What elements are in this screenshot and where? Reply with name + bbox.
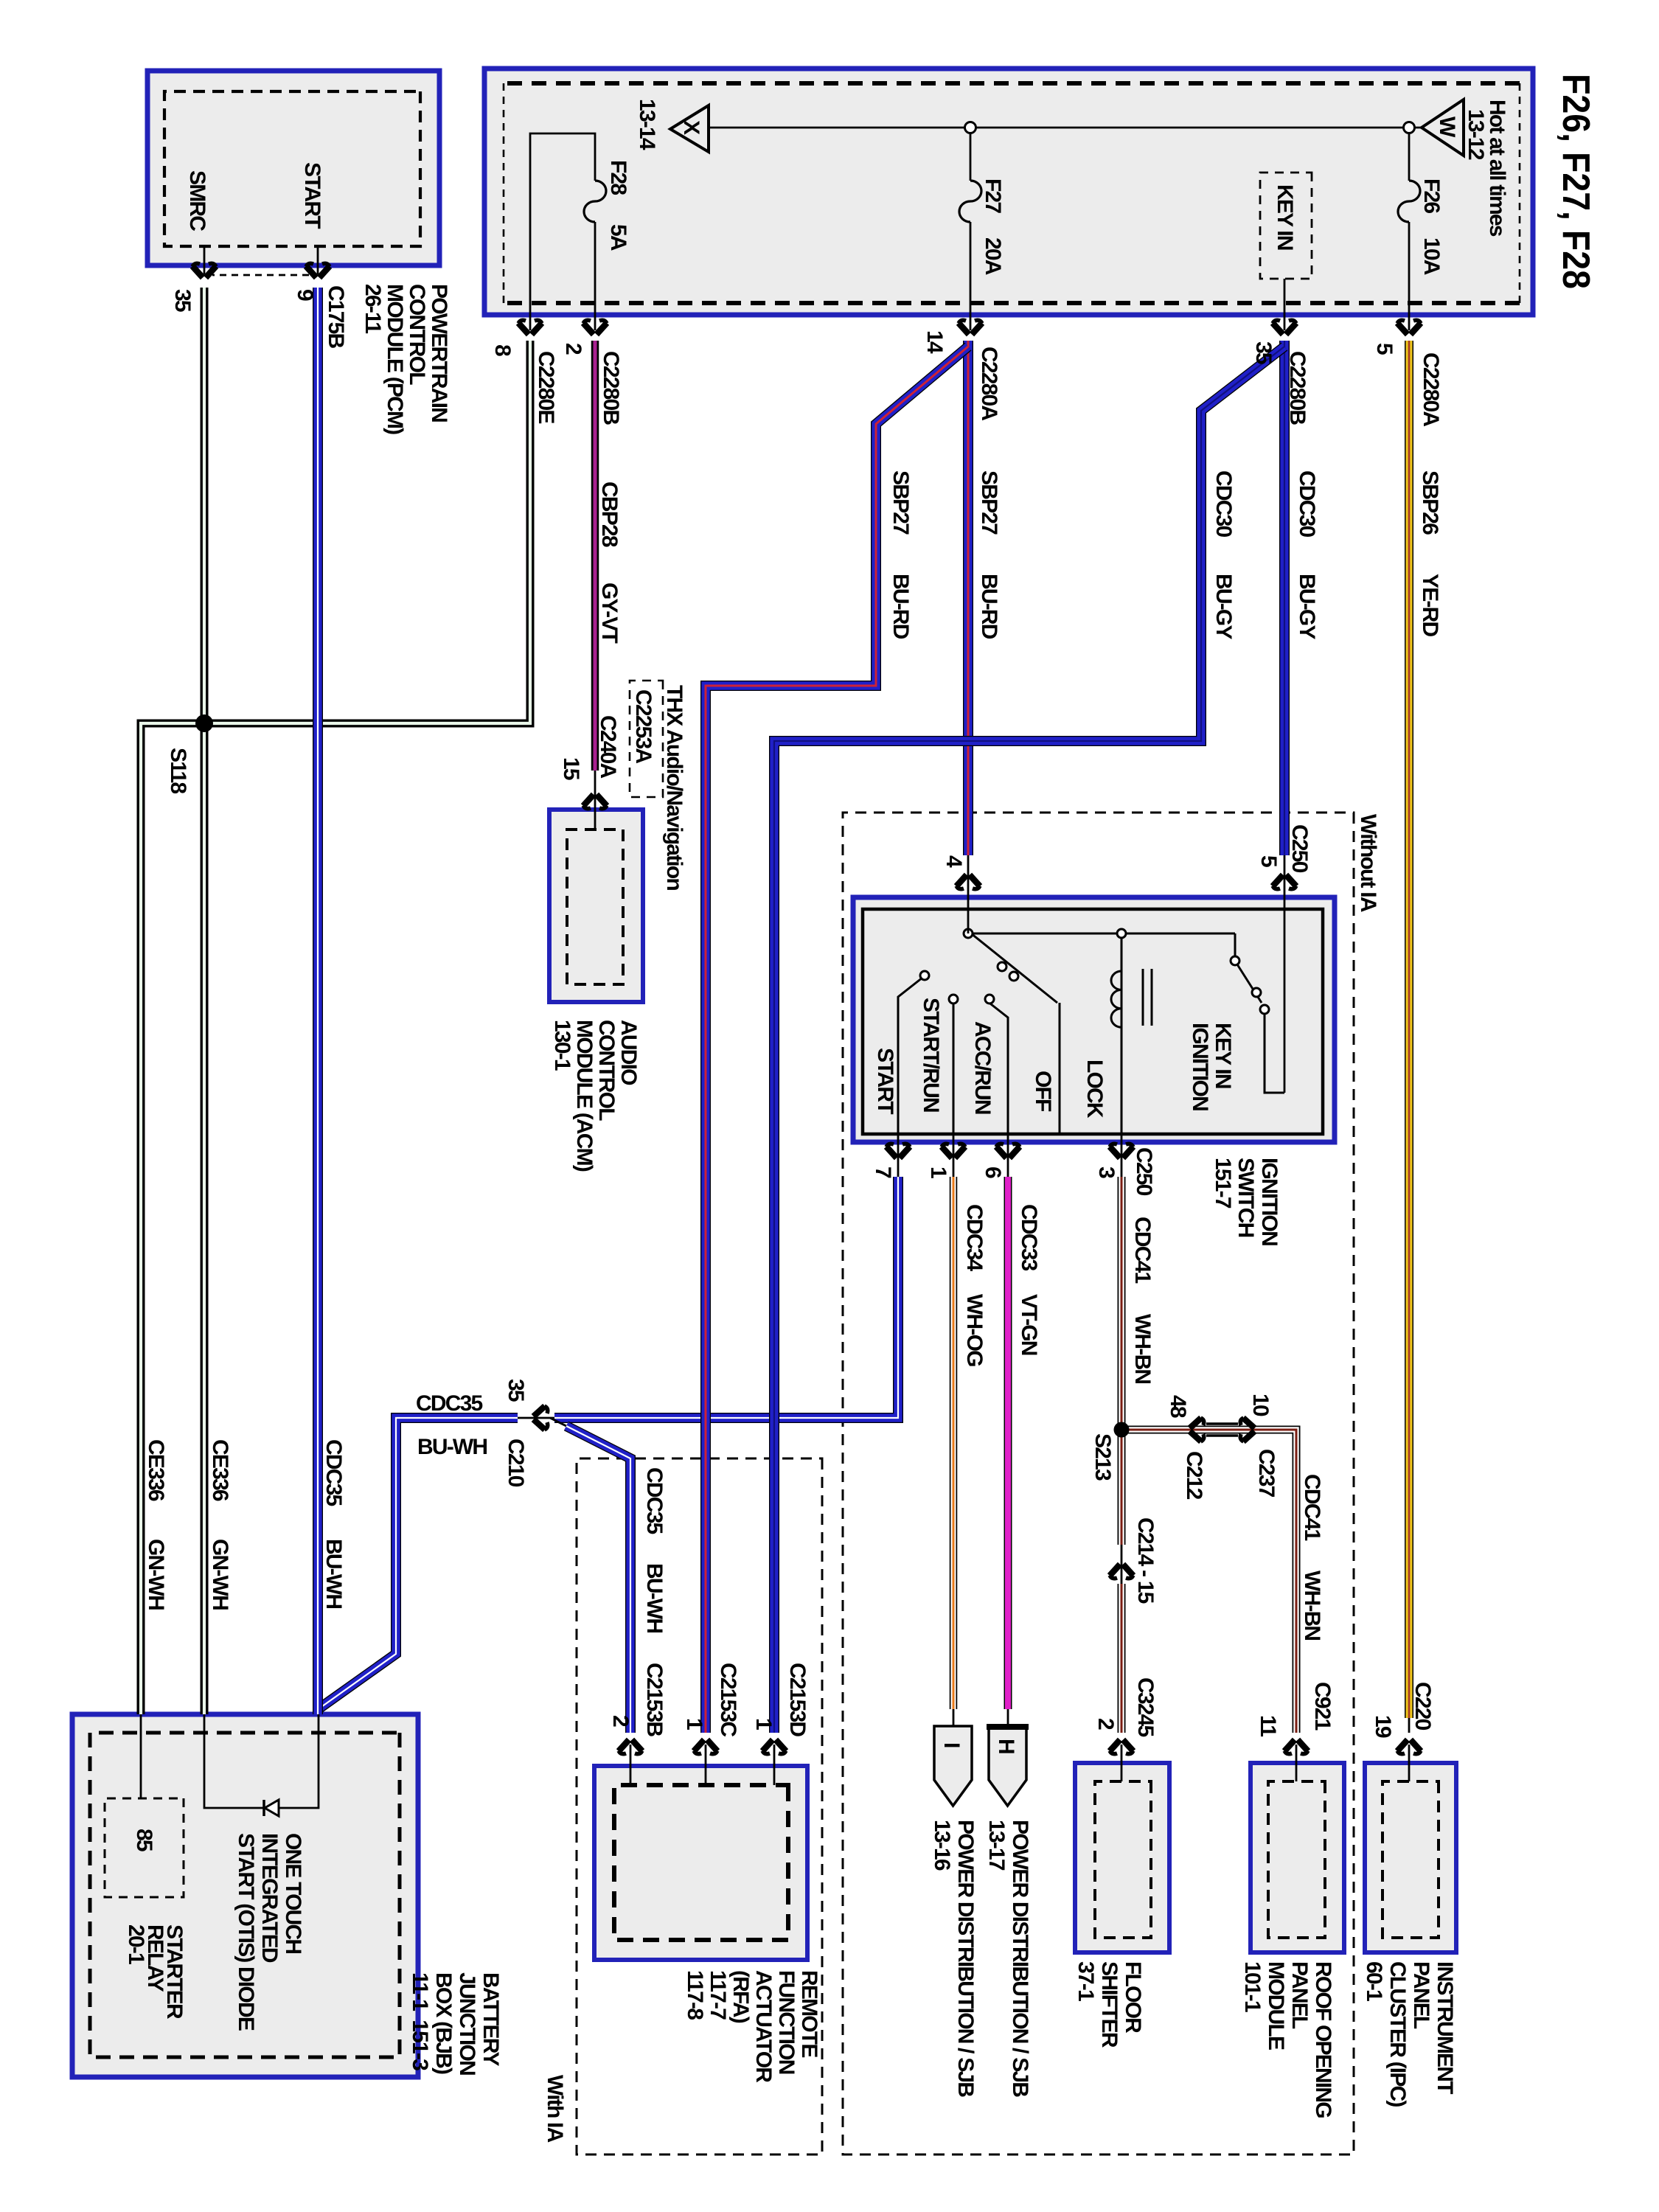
wire PCM START stub	[317, 246, 319, 274]
svg-text:WH-BN: WH-BN	[1130, 1314, 1155, 1383]
node KEY IN	[1260, 173, 1312, 279]
svg-text:ONE TOUCH: ONE TOUCH	[281, 1833, 305, 1953]
wire CDC35 BU-WH ignition pin 7 through C210 to BJB	[554, 1177, 898, 1418]
node C2253A label box (THX Audio/Navigation)	[630, 681, 663, 797]
svg-text:5A: 5A	[606, 224, 630, 251]
svg-text:C220: C220	[1411, 1682, 1435, 1731]
switch SW1 IGNITION SWITCH 151-7	[853, 897, 1335, 1142]
svg-text:THX Audio/Navigation: THX Audio/Navigation	[662, 685, 686, 890]
inductor chime coil	[1111, 971, 1121, 1027]
svg-text:REMOTE: REMOTE	[797, 1970, 821, 2057]
wire CE336 GN-WH S118 to OTIS diode	[204, 723, 205, 1714]
svg-text:4: 4	[942, 855, 966, 868]
svg-text:BATTERY: BATTERY	[479, 1972, 503, 2067]
svg-text:ACTUATOR: ACTUATOR	[751, 1970, 776, 2083]
svg-text:85: 85	[132, 1829, 156, 1851]
svg-text:8: 8	[490, 344, 515, 356]
svg-text:C2153B: C2153B	[642, 1663, 667, 1736]
svg-text:CONTROL: CONTROL	[405, 284, 429, 385]
wire F27 feed	[970, 128, 972, 181]
svg-text:X: X	[679, 120, 703, 135]
wire key-in branch	[1234, 933, 1237, 956]
svg-text:CDC30: CDC30	[1211, 470, 1236, 537]
svg-text:C2253A: C2253A	[631, 689, 655, 763]
svg-text:37-1: 37-1	[1074, 1961, 1098, 2001]
svg-text:KEY IN: KEY IN	[1273, 184, 1297, 250]
svg-text:20A: 20A	[981, 237, 1005, 275]
svg-text:130-1: 130-1	[550, 1020, 574, 1071]
svg-text:INSTRUMENT: INSTRUMENT	[1433, 1961, 1457, 2094]
svg-text:101-1: 101-1	[1240, 1961, 1265, 2012]
connector arrow C2153C pin 1	[694, 1740, 717, 1754]
connector arrow C2153B pin 2	[619, 1740, 642, 1754]
bus wire inside power box	[709, 127, 1422, 129]
wire CE336 GN-WH from C2280E pin 8 to S118 to BJB pin 85	[141, 341, 530, 1714]
node bus tap F27	[965, 122, 976, 133]
svg-text:19: 19	[1371, 1715, 1395, 1738]
wire PCM SMRC stub	[204, 246, 206, 274]
connector arrow C240A pin 15	[583, 795, 607, 809]
svg-text:CDC35: CDC35	[416, 1391, 482, 1416]
svg-text:151-7: 151-7	[1211, 1158, 1235, 1208]
wire SBP27 BU-RD branch to RFA C2153C	[706, 347, 968, 1733]
svg-text:YE-RD: YE-RD	[1418, 574, 1442, 636]
svg-text:PANEL: PANEL	[1287, 1961, 1312, 2029]
fuse F28 5A	[584, 181, 606, 222]
svg-text:BU-GY: BU-GY	[1295, 574, 1319, 639]
connector arrow C921 pin 11	[1284, 1740, 1308, 1754]
connector arrow C214-15	[1110, 1565, 1133, 1579]
svg-text:SWITCH: SWITCH	[1234, 1158, 1258, 1237]
svg-text:SBP27: SBP27	[977, 470, 1001, 535]
svg-text:W: W	[1435, 116, 1459, 138]
junction S118	[195, 714, 213, 732]
svg-text:11: 11	[1256, 1715, 1280, 1736]
svg-text:C921: C921	[1310, 1682, 1335, 1731]
connector arrow C250 pin 5	[1273, 875, 1296, 889]
svg-text:BU-WH: BU-WH	[642, 1563, 667, 1632]
svg-text:26-11: 26-11	[361, 284, 385, 333]
svg-text:POWER DISTRIBUTION / SJB: POWER DISTRIBUTION / SJB	[953, 1820, 978, 2097]
wire CBP28 GY-VT from C2280B pin 2 to ACM C240A pin 15	[594, 341, 596, 771]
svg-text:1: 1	[751, 1718, 776, 1730]
wire pin stubs to C250 bottom	[1121, 1134, 1123, 1178]
svg-text:BU-WH: BU-WH	[321, 1539, 346, 1608]
svg-text:C2280A: C2280A	[1419, 352, 1443, 426]
module ROOF OPENING PANEL MODULE 101-1	[1251, 1763, 1344, 1952]
svg-text:With IA: With IA	[543, 2075, 567, 2143]
svg-text:CONTROL: CONTROL	[594, 1020, 619, 1121]
fuse F26 10A	[1398, 181, 1420, 222]
svg-text:SMRC: SMRC	[185, 170, 209, 231]
svg-text:1: 1	[682, 1718, 706, 1730]
svg-text:IGNITION: IGNITION	[1257, 1158, 1281, 1245]
svg-text:3: 3	[1094, 1166, 1119, 1178]
svg-text:F26, F27, F28: F26, F27, F28	[1554, 74, 1597, 289]
svg-text:C2280B: C2280B	[1285, 351, 1310, 425]
svg-text:CBP28: CBP28	[597, 481, 622, 547]
connector arrow PCM C175B pin 9	[306, 263, 330, 277]
svg-text:I: I	[939, 1742, 964, 1747]
svg-text:BU-WH: BU-WH	[417, 1435, 487, 1459]
svg-text:C2153D: C2153D	[785, 1663, 810, 1736]
connector arrow C250 pin 6	[996, 1144, 1020, 1158]
svg-text:13-14: 13-14	[635, 99, 659, 150]
svg-text:C2280B: C2280B	[599, 351, 623, 425]
svg-text:POWERTRAIN: POWERTRAIN	[427, 284, 451, 422]
svg-text:BU-GY: BU-GY	[1211, 574, 1236, 639]
wire CDC33 VT-GN ignition pin 6 to POWER DISTRIBUTION H	[1007, 1177, 1009, 1709]
module POWERTRAIN CONTROL MODULE (PCM) 26-11	[147, 71, 439, 265]
svg-text:CDC33: CDC33	[1017, 1204, 1041, 1270]
off-page connector X	[670, 105, 709, 152]
svg-text:MODULE (PCM): MODULE (PCM)	[383, 284, 407, 434]
svg-text:35: 35	[504, 1379, 528, 1402]
svg-text:F27: F27	[981, 178, 1005, 213]
svg-text:JUNCTION: JUNCTION	[455, 1972, 479, 2075]
svg-text:CDC35: CDC35	[321, 1439, 346, 1506]
connector arrow C250 pin 7	[886, 1144, 910, 1158]
wire key-in to pin5	[1265, 1014, 1284, 1093]
svg-text:48: 48	[1166, 1395, 1190, 1418]
connector arrow C220 pin 19	[1397, 1740, 1421, 1754]
svg-text:7: 7	[871, 1166, 895, 1178]
relay STARTER RELAY 20-1 (coil 85)	[105, 1798, 184, 1897]
module AUDIO CONTROL MODULE (ACM) 130-1	[549, 810, 643, 1002]
svg-text:10: 10	[1248, 1394, 1273, 1416]
svg-text:11-1 151-3: 11-1 151-3	[408, 1972, 432, 2070]
svg-text:CLUSTER (IPC): CLUSTER (IPC)	[1385, 1961, 1410, 2107]
switch blade OFF	[971, 933, 1060, 1134]
svg-text:5: 5	[1256, 855, 1281, 867]
svg-text:13-16: 13-16	[930, 1820, 954, 1871]
wire CDC35 BU-WH branch C210 to RFA C2153B	[550, 1418, 569, 1427]
svg-text:POWER DISTRIBUTION / SJB: POWER DISTRIBUTION / SJB	[1008, 1820, 1032, 2097]
connector arrow C2280A pin 14	[959, 320, 982, 334]
svg-text:CDC30: CDC30	[1295, 470, 1319, 537]
connector arrow C250 pin 3	[1110, 1144, 1133, 1158]
svg-text:2: 2	[1093, 1718, 1118, 1730]
svg-text:BU-RD: BU-RD	[977, 574, 1001, 639]
svg-text:START/RUN: START/RUN	[919, 998, 943, 1112]
svg-text:C237: C237	[1254, 1449, 1279, 1498]
svg-text:FLOOR: FLOOR	[1121, 1961, 1145, 2034]
svg-text:15: 15	[559, 757, 583, 780]
svg-text:C214 - 15: C214 - 15	[1133, 1517, 1158, 1604]
svg-text:WH-OG: WH-OG	[962, 1294, 987, 1366]
connector arrow C212 pin 48	[1190, 1418, 1204, 1441]
module REMOTE FUNCTION ACTUATOR (RFA)	[594, 1766, 807, 1960]
off-page connector W	[1422, 100, 1464, 156]
svg-text:1: 1	[926, 1166, 950, 1178]
svg-text:IGNITION: IGNITION	[1188, 1023, 1212, 1110]
connector arrow C2153D pin 1	[762, 1740, 786, 1754]
svg-text:35: 35	[170, 289, 195, 312]
wire CDC41 WH-BN ignition pin 3 through S213, C214-15 to FLOOR SHIFTER C3245	[1121, 1177, 1122, 1545]
svg-text:10A: 10A	[1419, 237, 1444, 275]
svg-text:ROOF OPENING: ROOF OPENING	[1311, 1961, 1335, 2118]
svg-text:AUDIO: AUDIO	[616, 1020, 641, 1085]
junction S213	[1114, 1422, 1130, 1438]
svg-text:GY-VT: GY-VT	[597, 582, 622, 643]
wire LOCK line	[1121, 933, 1123, 1134]
wire F26 feed	[1408, 128, 1411, 181]
svg-text:VT-GN: VT-GN	[1017, 1294, 1041, 1355]
svg-text:117-7: 117-7	[706, 1970, 730, 2020]
svg-text:CDC41: CDC41	[1130, 1217, 1155, 1283]
svg-text:Without IA: Without IA	[1356, 814, 1380, 912]
svg-text:C2280E: C2280E	[534, 351, 558, 423]
off-page flag I POWER DISTRIBUTION/SJB 13-16	[934, 1726, 972, 1806]
switch contact START	[898, 978, 922, 1134]
svg-text:C212: C212	[1182, 1451, 1206, 1500]
svg-text:SBP27: SBP27	[888, 470, 913, 535]
connector arrow C237 pin 10	[1240, 1418, 1254, 1441]
connector arrow C250 pin 1	[942, 1144, 965, 1158]
switch contact ACC/RUN	[987, 1001, 1008, 1134]
svg-text:C3245: C3245	[1133, 1677, 1158, 1737]
svg-text:INTEGRATED: INTEGRATED	[257, 1833, 282, 1963]
svg-text:PANEL: PANEL	[1409, 1961, 1433, 2029]
connector arrow C2280A pin 5	[1397, 320, 1421, 334]
svg-text:F26: F26	[1419, 178, 1444, 213]
svg-text:14: 14	[922, 330, 947, 354]
svg-text:60-1: 60-1	[1362, 1961, 1386, 2001]
svg-text:F28: F28	[606, 160, 630, 195]
switch KEY IN IGNITION contacts	[1237, 964, 1262, 1003]
wire SBP26 YE-RD from fuse F26 to IPC C220 pin 19	[1408, 341, 1410, 1718]
off-page flag H POWER DISTRIBUTION/SJB 13-17	[989, 1726, 1026, 1806]
wire F28 feed loop	[530, 133, 595, 330]
svg-text:13-17: 13-17	[984, 1820, 1009, 1871]
node Without IA (dashed region)	[843, 813, 1354, 2154]
svg-text:CE336: CE336	[208, 1439, 232, 1501]
svg-text:C240A: C240A	[596, 715, 620, 779]
svg-text:MODULE (ACM): MODULE (ACM)	[572, 1020, 597, 1172]
node With IA (dashed region)	[577, 1458, 822, 2154]
connector C175B link	[212, 274, 309, 276]
module BATTERY JUNCTION BOX (BJB)	[72, 1714, 418, 2077]
svg-text:C175B: C175B	[324, 285, 348, 349]
svg-text:CE336: CE336	[144, 1439, 168, 1501]
svg-text:ACC/RUN: ACC/RUN	[970, 1021, 995, 1114]
wire CDC34 WH-OG ignition pin 1 to POWER DISTRIBUTION I	[953, 1177, 954, 1709]
wire SBP27 BU-RD C2280A pin 14 to ignition pin 4	[967, 341, 969, 855]
svg-text:LOCK: LOCK	[1082, 1060, 1107, 1119]
wire BJB internal diode branch	[204, 1714, 319, 1808]
switch contact START/RUN	[953, 999, 955, 1134]
svg-text:C250: C250	[1132, 1147, 1156, 1196]
svg-text:CDC41: CDC41	[1300, 1474, 1324, 1540]
connector arrow C2280B pin 35	[1273, 320, 1296, 334]
svg-text:GN-WH: GN-WH	[144, 1539, 168, 1610]
svg-text:BU-RD: BU-RD	[888, 574, 913, 639]
svg-text:C210: C210	[504, 1439, 528, 1487]
svg-text:117-8: 117-8	[683, 1970, 707, 2020]
svg-text:C250: C250	[1287, 824, 1312, 873]
svg-text:FUNCTION: FUNCTION	[774, 1970, 799, 2074]
diode OTIS (in BJB)	[265, 1800, 279, 1816]
svg-text:SBP26: SBP26	[1418, 470, 1442, 535]
svg-text:KEY IN: KEY IN	[1211, 1023, 1235, 1088]
wire KEY IN feed	[1284, 279, 1286, 330]
wire CDC30 BU-GY C2280B pin 35 to ignition pin 5	[1284, 341, 1285, 855]
svg-text:5: 5	[1372, 343, 1397, 355]
connector arrow C2280E pin 8	[518, 320, 542, 334]
wire CDC41 WH-BN S213 branch through C212/C237 to ROOF C921	[1121, 1430, 1296, 1733]
svg-text:MODULE: MODULE	[1264, 1961, 1288, 2050]
svg-text:SHIFTER: SHIFTER	[1097, 1961, 1121, 2048]
svg-text:GN-WH: GN-WH	[208, 1539, 232, 1610]
svg-text:C2153C: C2153C	[716, 1663, 740, 1736]
connector arrow C250 pin 4	[956, 875, 980, 889]
svg-text:START: START	[873, 1048, 897, 1114]
svg-text:OFF: OFF	[1031, 1071, 1055, 1112]
connector arrow C3245 pin 2	[1110, 1740, 1133, 1754]
svg-text:BOX (BJB): BOX (BJB)	[431, 1972, 456, 2074]
svg-text:(RFA): (RFA)	[728, 1970, 753, 2023]
module FLOOR SHIFTER 37-1	[1075, 1763, 1169, 1952]
svg-text:START: START	[300, 162, 324, 229]
svg-text:20-1: 20-1	[124, 1924, 148, 1964]
node bus tap F26	[1404, 122, 1415, 133]
connector arrow PCM C175B pin 35	[192, 263, 216, 277]
svg-text:CDC34: CDC34	[962, 1204, 987, 1271]
svg-text:START (OTIS) DIODE: START (OTIS) DIODE	[234, 1833, 258, 2031]
module INSTRUMENT PANEL CLUSTER (IPC) 60-1	[1365, 1763, 1456, 1952]
svg-text:S213: S213	[1091, 1433, 1115, 1481]
connector arrow C210 pin 35	[534, 1406, 548, 1430]
wire BJB internal to relay 85	[140, 1714, 142, 1798]
wire ignition internal bus	[971, 933, 1235, 935]
svg-text:35: 35	[1251, 341, 1276, 364]
wire CDC30 BU-GY branch to RFA C2153D	[774, 347, 1284, 1733]
svg-text:2: 2	[608, 1715, 633, 1727]
svg-text:H: H	[994, 1739, 1018, 1753]
connector bridge C212-C237	[1206, 1422, 1238, 1425]
svg-text:CDC35: CDC35	[642, 1467, 667, 1534]
wire CDC35 BU-WH PCM START pin 9 to BJB OTIS diode	[317, 288, 319, 1714]
fuse F27 20A	[959, 181, 981, 222]
battery junction box power feed (Hot at all times)	[484, 69, 1533, 315]
svg-text:WH-BN: WH-BN	[1300, 1571, 1324, 1640]
wire CE336 GN-WH PCM SMRC to S118	[204, 288, 205, 723]
svg-text:2: 2	[561, 343, 585, 355]
connector arrow C2280B pin 2	[583, 320, 607, 334]
svg-text:6: 6	[981, 1166, 1005, 1178]
svg-text:C2280A: C2280A	[977, 347, 1001, 420]
svg-text:13-12: 13-12	[1464, 109, 1488, 160]
svg-text:S118: S118	[166, 748, 190, 793]
